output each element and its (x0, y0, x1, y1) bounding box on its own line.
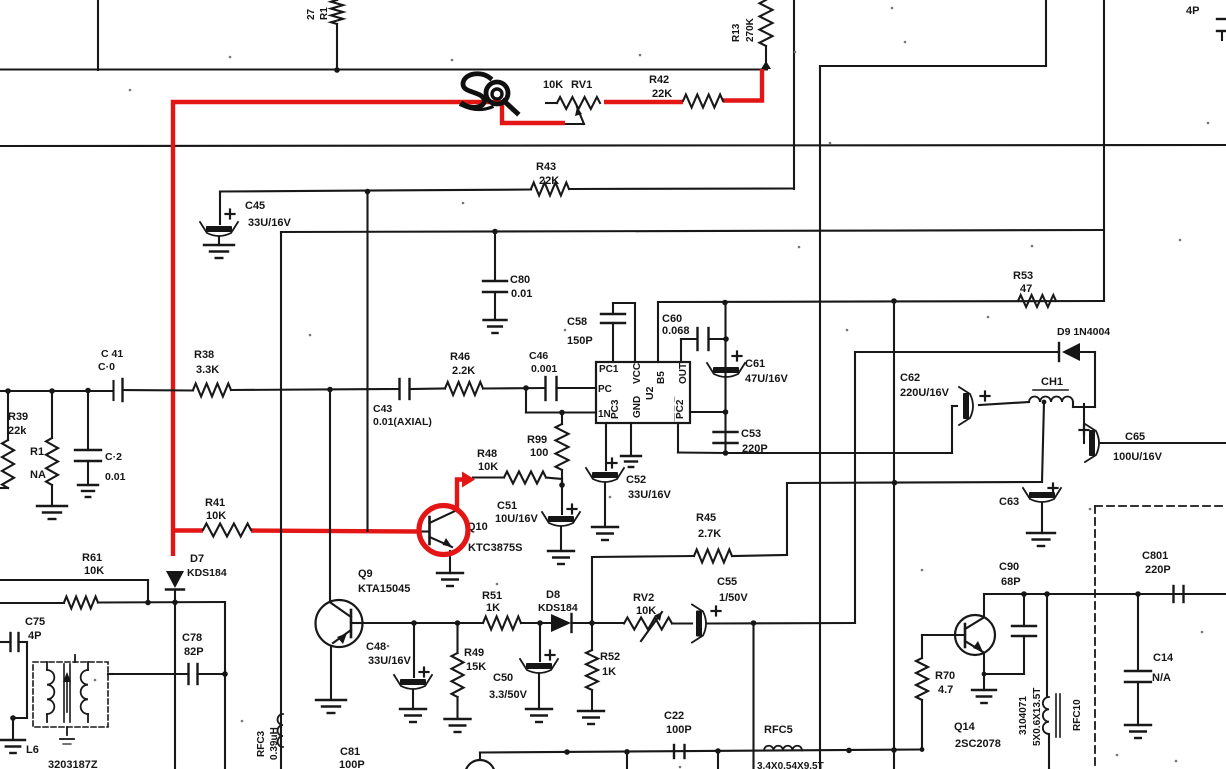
svg-text:L6: L6 (26, 744, 39, 756)
wire (bottom bus) (480, 750, 922, 753)
svg-text:3.4X0.54X9.5T: 3.4X0.54X9.5T (757, 761, 824, 769)
junction (145, 600, 151, 606)
ground (548, 527, 574, 564)
svg-text:C45: C45 (245, 200, 265, 212)
capacitor C48 33U/16V (electrolytic) (366, 623, 432, 709)
svg-text:D8: D8 (546, 589, 560, 601)
wire (717, 751, 719, 769)
svg-text:3203187Z: 3203187Z (48, 759, 98, 769)
capacitor C62 220U/16V (electrolytic) (900, 372, 1029, 453)
svg-text:47U/16V: 47U/16V (745, 373, 788, 385)
junction (559, 482, 565, 488)
transistor (bottom edge, partial) (465, 753, 495, 769)
svg-text:GND: GND (632, 396, 643, 418)
svg-text:B5: B5 (656, 371, 667, 384)
wire (280, 232, 282, 769)
ground (1125, 725, 1151, 738)
junction (920, 747, 925, 752)
capacitor C52 33U/16V (electrolytic) (586, 423, 671, 501)
transformer L6 3203187Z (dashed box) (26, 655, 108, 769)
junction (492, 229, 498, 235)
ground (437, 573, 463, 586)
svg-text:RFC3: RFC3 (256, 730, 267, 757)
wire (Q9 base line) (363, 622, 483, 624)
svg-text:KTC3875S: KTC3875S (468, 542, 522, 554)
junction with arrowhead (761, 61, 771, 69)
wire (592, 622, 624, 624)
ground (37, 506, 67, 519)
svg-text:C75: C75 (25, 616, 45, 628)
capacitor C801 220P (1142, 550, 1184, 602)
svg-text:̅P̅C̅2̅: ̅P̅C̅2̅ (674, 397, 686, 422)
potentiometer RV2 10K (624, 592, 672, 641)
svg-text:10K: 10K (84, 565, 104, 577)
svg-text:R48: R48 (477, 448, 497, 460)
svg-text:CH1: CH1 (1041, 376, 1063, 388)
svg-text:1K: 1K (486, 602, 500, 614)
svg-text:RFC10: RFC10 (1072, 699, 1083, 731)
svg-text:C53: C53 (741, 428, 761, 440)
junction (723, 409, 729, 415)
svg-text:R99: R99 (527, 434, 547, 446)
svg-text:2.2K: 2.2K (452, 365, 475, 377)
svg-text:4.7: 4.7 (938, 684, 953, 696)
junction (49, 388, 55, 394)
junction (5, 388, 11, 394)
svg-text:C80: C80 (510, 274, 530, 286)
svg-text:15K: 15K (466, 661, 486, 673)
junction (564, 749, 570, 755)
svg-text:C61: C61 (745, 358, 765, 370)
svg-text:0.001: 0.001 (531, 363, 557, 375)
svg-text:82P: 82P (184, 646, 204, 658)
capacitor C61 47U/16V (electrolytic) (707, 352, 788, 386)
svg-text:C58: C58 (567, 316, 587, 328)
wire (123, 389, 194, 392)
wire (1103, 0, 1105, 301)
svg-text:C50: C50 (493, 672, 513, 684)
junction (1135, 591, 1141, 597)
resistor R42 22K (649, 74, 723, 108)
junction (715, 748, 721, 754)
capacitor C14 N/A (1125, 594, 1174, 725)
wire (819, 66, 821, 769)
svg-text:C81: C81 (340, 746, 360, 758)
svg-text:27: 27 (306, 8, 317, 20)
wire (410, 387, 446, 390)
resistor R52 1K (586, 623, 620, 711)
transistor Q9 KTA15045 (316, 568, 411, 647)
capacitor C78 82P (112, 632, 225, 684)
svg-text:22k: 22k (8, 425, 27, 437)
wire (893, 750, 895, 769)
svg-text:0.01: 0.01 (511, 288, 532, 300)
junction (365, 189, 371, 195)
svg-text:0.01(AXIAL): 0.01(AXIAL) (373, 416, 432, 428)
ground (204, 237, 234, 258)
svg-text:33U/16V: 33U/16V (248, 217, 291, 229)
ground (578, 711, 604, 724)
svg-text:R42: R42 (649, 74, 669, 86)
junction (CH1 center tap) (1042, 400, 1047, 405)
svg-text:C52: C52 (626, 474, 646, 486)
capacitor C43 0.01(AXIAL) (373, 379, 432, 428)
capacitor C51 10U/16V (electrolytic) (495, 485, 580, 526)
junction (589, 620, 595, 626)
junction (1044, 591, 1050, 597)
capacitor C50 3.3/50V (electrolytic) (489, 623, 558, 709)
wire (726, 452, 953, 454)
svg-text:R61: R61 (82, 552, 102, 564)
diode D9 1N4004 (855, 326, 1110, 407)
svg-text:10U/16V: 10U/16V (495, 513, 538, 525)
junction (537, 620, 543, 626)
svg-text:D9 1N4004: D9 1N4004 (1057, 326, 1110, 338)
svg-text:R52: R52 (600, 651, 620, 663)
svg-text:100P: 100P (666, 724, 692, 736)
svg-text:1K: 1K (602, 666, 616, 678)
ground (400, 709, 426, 722)
resistor R39 22k (0, 391, 28, 488)
svg-text:0.39uH: 0.39uH (269, 727, 280, 760)
ground (small) (78, 485, 98, 497)
wire (108, 673, 112, 675)
svg-text:68P: 68P (1001, 576, 1021, 588)
label 3.4X0.54X9.5T (757, 761, 824, 769)
wire (224, 602, 226, 769)
diode D8 KDS184 (538, 589, 592, 632)
wire (Q14 emitter) (984, 653, 1024, 674)
junction (892, 480, 898, 486)
svg-text:R39: R39 (8, 411, 28, 423)
capacitor C63 (electrolytic) (999, 484, 1061, 534)
svg-text:2SC2078: 2SC2078 (955, 738, 1001, 750)
ground (445, 719, 471, 732)
resistor R13 270K (vertical) (731, 0, 773, 69)
resistor R45 2.7K (694, 512, 732, 563)
svg-text:Q14: Q14 (954, 721, 976, 733)
capacitor C41 (series) (98, 348, 123, 401)
junction (411, 620, 417, 626)
capacitor C42 0.01 (75, 391, 126, 486)
capacitor C80 0.01 (483, 232, 532, 321)
svg-text:47: 47 (1020, 283, 1032, 295)
svg-text:100: 100 (530, 447, 548, 459)
ground (1027, 533, 1055, 546)
ground (972, 674, 996, 703)
svg-text:C63: C63 (999, 496, 1019, 508)
svg-text:C46: C46 (529, 350, 548, 362)
diode D7 KDS184 (166, 553, 227, 769)
wire (854, 352, 856, 623)
wire (0, 390, 112, 392)
svg-text:C43: C43 (373, 403, 392, 415)
capacitor C22 100P (664, 710, 692, 758)
wire (820, 0, 1046, 66)
wire (672, 622, 692, 624)
wire (787, 482, 1042, 483)
svg-text:VCC: VCC (632, 363, 643, 384)
junction (327, 387, 333, 393)
capacitor C53 220P (714, 428, 768, 455)
svg-text:Q9: Q9 (358, 568, 373, 580)
svg-text:4P: 4P (1186, 5, 1199, 17)
resistor R61 10K (0, 552, 225, 609)
svg-text:R41: R41 (205, 497, 225, 509)
svg-text:C48: C48 (366, 641, 386, 653)
svg-text:R1: R1 (30, 446, 44, 458)
wire (0, 580, 148, 603)
svg-text:N/A: N/A (1152, 672, 1171, 684)
svg-text:220P: 220P (1145, 564, 1171, 576)
svg-text:10K: 10K (636, 605, 656, 617)
svg-text:4P: 4P (28, 630, 41, 642)
svg-text:KTA15045: KTA15045 (358, 583, 410, 595)
wire (526, 388, 596, 413)
svg-text:3.3/50V: 3.3/50V (489, 689, 528, 701)
wire (366, 192, 368, 532)
svg-text:C90: C90 (999, 561, 1019, 573)
svg-text:33U/16V: 33U/16V (368, 655, 411, 667)
junction (222, 671, 228, 677)
ground (526, 709, 552, 722)
svg-text:220U/16V: 220U/16V (900, 387, 950, 399)
svg-text:10K: 10K (543, 79, 563, 91)
svg-text:C801: C801 (1142, 550, 1168, 562)
resistor R51 1K (482, 590, 521, 630)
svg-text:R43: R43 (536, 161, 556, 173)
svg-text:150P: 150P (567, 335, 593, 347)
dashed border (right block) (1095, 506, 1226, 769)
svg-text:10K: 10K (478, 461, 498, 473)
capacitor C46 0.001 (529, 350, 557, 400)
svg-text:KDS184: KDS184 (538, 602, 578, 614)
transistor Q10 KTC3875S (419, 511, 522, 573)
junction (751, 620, 757, 626)
svg-text:100U/16V: 100U/16V (1113, 451, 1163, 463)
svg-text:270K: 270K (745, 17, 756, 42)
capacitor C58 150P (567, 303, 635, 362)
svg-text:1/50V: 1/50V (719, 592, 748, 604)
wire (893, 301, 895, 752)
svg-text:33U/16V: 33U/16V (628, 489, 671, 501)
inductor RFC3 0.39uH (256, 714, 283, 760)
svg-text:C78: C78 (182, 632, 202, 644)
resistor R48 10K (473, 448, 562, 485)
svg-text:R70: R70 (935, 670, 955, 682)
capacitor C45 33U/16V (electrolytic) (200, 192, 291, 236)
IC GND pin to ground (621, 423, 641, 467)
wire (330, 647, 332, 700)
wire (626, 752, 628, 769)
red arrow to R48 (457, 472, 475, 512)
svg-text:NA: NA (30, 469, 46, 481)
junction (723, 450, 729, 456)
svg-text:C22: C22 (664, 710, 684, 722)
svg-text:22K: 22K (652, 88, 672, 100)
svg-text:PC3: PC3 (610, 399, 621, 419)
svg-text:RV1: RV1 (571, 79, 592, 91)
svg-text:C 41: C 41 (101, 348, 123, 360)
svg-text:2.7K: 2.7K (698, 528, 721, 540)
svg-text:C·0: C·0 (98, 361, 115, 373)
svg-text:RV2: RV2 (633, 592, 654, 604)
svg-text:D7: D7 (190, 553, 204, 565)
svg-text:KDS184: KDS184 (187, 567, 227, 579)
svg-text:PC1: PC1 (599, 364, 619, 375)
wire (483, 387, 545, 390)
svg-text:C62: C62 (900, 372, 920, 384)
svg-text:U2: U2 (644, 386, 656, 400)
resistor R46 2.2K (445, 351, 483, 395)
junction (624, 749, 630, 755)
wire (R45 feedback) (592, 556, 694, 623)
svg-text:5X0.6X13.5T: 5X0.6X13.5T (1032, 688, 1043, 746)
svg-text:0.068: 0.068 (662, 325, 690, 337)
svg-text:C14: C14 (1153, 652, 1174, 664)
wire (231, 389, 399, 390)
svg-text:100P: 100P (339, 759, 365, 769)
capacitor C75 4P (0, 616, 45, 718)
svg-text:C65: C65 (1125, 431, 1145, 443)
junction (1021, 591, 1027, 597)
potentiometer RV1 10K (543, 79, 600, 124)
wire (1042, 402, 1044, 482)
svg-text:1N: 1N (598, 409, 611, 420)
ground (small) (484, 320, 507, 333)
svg-text:R45: R45 (696, 512, 716, 524)
wire (Q14 collector) (984, 594, 1226, 617)
svg-text:C55: C55 (717, 576, 737, 588)
svg-text:R1: R1 (319, 7, 330, 20)
resistor R99 100 (527, 413, 569, 486)
IC U2 (PC1 PC IN PC3 GND VCC B5 OUT PC2) (596, 362, 690, 423)
handwritten SQ scribble (461, 74, 517, 113)
svg-text:3.3K: 3.3K (196, 364, 219, 376)
resistor R1 NA (30, 391, 58, 506)
wire (0, 145, 1226, 146)
svg-text:R46: R46 (450, 351, 470, 363)
transistor Q14 2SC2078 (922, 615, 1001, 750)
svg-text:C60: C60 (662, 313, 682, 325)
junction (334, 67, 340, 73)
wire (97, 0, 99, 70)
wire (732, 483, 787, 556)
inductor RFC5 (764, 724, 802, 751)
wire (281, 230, 1104, 232)
resistor R38 3.3K (193, 349, 231, 397)
label C81 100P (339, 746, 365, 769)
wire (PC2 pin) (678, 423, 726, 453)
svg-text:10K: 10K (206, 510, 226, 522)
resistor R43 22K (531, 161, 569, 196)
wire (521, 622, 551, 624)
resistor R49 15K (452, 623, 487, 719)
red annotation polyline (171, 69, 762, 556)
capacitor C90 68P (999, 561, 1036, 674)
wire (569, 187, 794, 190)
svg-text:R38: R38 (194, 349, 214, 361)
resistor R41 10K (203, 497, 251, 537)
junction (722, 300, 728, 306)
svg-text:OUT: OUT (678, 363, 689, 384)
wire (13, 717, 27, 719)
wire (793, 0, 795, 189)
wire (220, 190, 531, 192)
wire (557, 387, 597, 389)
svg-text:C51: C51 (497, 500, 517, 512)
wire (B5 to top rail) (658, 301, 1104, 362)
svg-text:R13: R13 (731, 23, 742, 42)
capacitor C65 100U/16V (electrolytic) (1080, 404, 1226, 463)
wire (724, 303, 726, 454)
junction (982, 672, 987, 677)
capacitor C55 1/50V (electrolytic) (692, 576, 855, 643)
resistor R12 270K (top, cut off) (306, 0, 343, 70)
wire (329, 390, 331, 601)
junction (172, 600, 178, 606)
junction (523, 385, 529, 391)
ground (316, 700, 346, 713)
svg-text:C·2: C·2 (105, 451, 122, 463)
junction (10, 715, 16, 721)
junction (891, 747, 897, 753)
wire (752, 623, 754, 769)
capacitor 4P (top right edge) (1186, 5, 1226, 40)
svg-text:R51: R51 (482, 590, 502, 602)
junction (891, 298, 897, 304)
wire (OUT pin) (690, 411, 726, 413)
svg-text:0.01: 0.01 (105, 471, 126, 483)
wire (0, 68, 767, 70)
svg-text:3104071: 3104071 (1018, 696, 1029, 735)
junction (846, 748, 852, 754)
ground (1, 718, 25, 753)
junction (559, 410, 565, 416)
junction (455, 620, 461, 626)
inductor CH1 (1029, 376, 1073, 407)
red circle around Q10 (419, 506, 468, 555)
inductor RFC10 3104071 5X0.6X13.5T (1018, 594, 1083, 769)
ground (592, 483, 618, 540)
junction (85, 388, 91, 394)
capacitor C60 0.068 (662, 313, 726, 362)
svg-text:R49: R49 (464, 647, 484, 659)
svg-text:R53: R53 (1013, 270, 1033, 282)
junction (723, 336, 729, 342)
resistor R53 47 (1013, 270, 1056, 307)
svg-text:PC: PC (598, 384, 612, 395)
resistor R70 4.7 (916, 635, 955, 750)
svg-text:RFC5: RFC5 (764, 724, 793, 736)
